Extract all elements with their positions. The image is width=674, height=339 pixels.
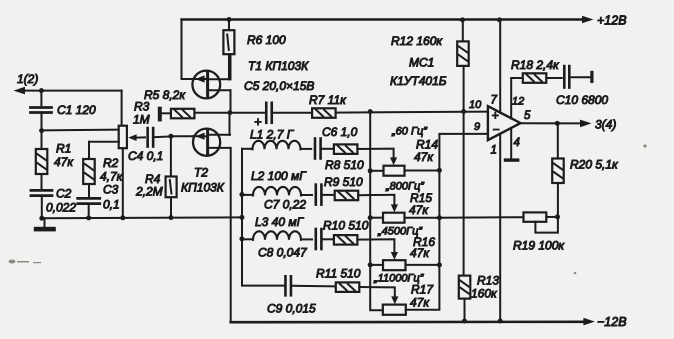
label R15 value [409, 203, 429, 217]
svg-text:R19 100к: R19 100к [513, 239, 565, 253]
capacitor C9 [285, 276, 335, 295]
arrow output 3(4) [580, 120, 592, 128]
label R10 510 [323, 219, 369, 233]
label C5 plus [254, 114, 262, 129]
label C8 0,047 [258, 246, 308, 260]
label R19 100k [513, 239, 565, 253]
label input 1(2) [17, 72, 38, 86]
label 800Hz [385, 181, 425, 193]
label K1UT401B [390, 74, 447, 88]
label R13 value [471, 287, 498, 301]
resistor R5 [171, 109, 195, 119]
svg-text:R2: R2 [103, 156, 119, 170]
wiper arrow input pot [128, 134, 145, 141]
junction rail-R6 [227, 17, 232, 22]
junction output [555, 121, 560, 126]
svg-text:С9 0,015: С9 0,015 [267, 302, 316, 316]
svg-text:„60 Гц”: „60 Гц” [391, 126, 428, 138]
capacitor C8 [316, 229, 334, 249]
wire T2 gate [171, 135, 193, 137]
junction busA-R15 [368, 215, 373, 220]
label R17 [411, 283, 434, 297]
svg-text:R3: R3 [134, 100, 150, 114]
label R3 1M [133, 100, 150, 127]
svg-text:R17: R17 [411, 283, 434, 297]
potentiometer R15 [383, 213, 405, 223]
pin 4 label [514, 137, 520, 149]
junction C2-bottom wire [39, 216, 44, 221]
potentiometer input pot body [119, 126, 127, 149]
svg-text:R5 8,2к: R5 8,2к [144, 88, 186, 102]
wire R14 left [370, 170, 383, 172]
wire pin 12 [511, 78, 523, 119]
ground symbol op-amp [504, 158, 520, 161]
label R7 11k [309, 93, 347, 107]
wire LC left bus [242, 149, 284, 286]
svg-text:С10 6800: С10 6800 [556, 93, 608, 107]
svg-text:−12В: −12В [597, 315, 627, 329]
junction C4-R4 [168, 134, 173, 139]
arrow input [14, 87, 26, 95]
junction busB-R16 [437, 262, 442, 267]
svg-text:L3 40 мГ: L3 40 мГ [255, 215, 305, 229]
svg-text:7: 7 [491, 95, 498, 107]
wire bus B [406, 134, 488, 310]
svg-text:R7 11к: R7 11к [309, 93, 347, 107]
label R1 47k [54, 142, 74, 170]
resistor R20 [552, 123, 564, 216]
wire input [24, 91, 122, 126]
potentiometer R14 [384, 166, 405, 176]
ground symbol left [34, 227, 56, 232]
label R8 510 [325, 158, 364, 172]
wire bus A [370, 112, 383, 311]
label -12V [597, 315, 627, 329]
svg-text:10: 10 [469, 99, 482, 111]
junction pot-bottom wire [120, 215, 125, 220]
svg-text:R1: R1 [56, 142, 71, 156]
svg-text:R8 510: R8 510 [325, 158, 364, 172]
svg-text:С3: С3 [103, 183, 119, 197]
wiper arrow R16 [391, 252, 398, 260]
junction busA top [368, 109, 373, 114]
svg-text:4: 4 [514, 137, 520, 149]
label R12 160k [391, 34, 443, 48]
inductor L1 [242, 141, 311, 150]
wire pin 4 [510, 128, 512, 159]
svg-text:МС1: МС1 [409, 56, 434, 70]
svg-text:−: − [493, 122, 500, 136]
resistor R13 [459, 112, 471, 322]
svg-text:R18 2,4к: R18 2,4к [511, 58, 560, 72]
capacitor C5 [266, 103, 312, 123]
svg-text:47к: 47к [410, 246, 430, 260]
label R13 [477, 274, 499, 288]
wire +12V top rail [182, 20, 584, 80]
wire R14 right [405, 170, 440, 172]
wire T1 drain to R6 [230, 54, 232, 79]
svg-text:С5 20,0×15В: С5 20,0×15В [244, 79, 314, 93]
capacitor C6 [315, 139, 334, 159]
wire T1 gate to rail [182, 78, 193, 80]
terminal stub C10 [590, 71, 593, 83]
label R14 [416, 138, 438, 152]
label 60Hz [391, 126, 428, 138]
svg-text:5: 5 [524, 110, 531, 122]
label MC1 [409, 56, 434, 70]
wire R15 right [405, 217, 440, 219]
label C6 1,0 [322, 125, 358, 139]
svg-text:Т2: Т2 [194, 166, 208, 180]
label R4 2,2M [135, 172, 163, 199]
pin 10 label [469, 99, 482, 111]
svg-text:R11 510: R11 510 [316, 267, 361, 281]
svg-text:R9 510: R9 510 [324, 175, 363, 189]
resistor R6 [223, 20, 234, 80]
label R17 value [410, 296, 430, 310]
pin 12 label [512, 96, 524, 108]
svg-text:L1 2,7 Г: L1 2,7 Г [250, 128, 295, 142]
svg-text:47к: 47к [409, 203, 429, 217]
capacitor C2 [31, 190, 52, 218]
label C5 value [244, 79, 314, 93]
potentiometer R16 [383, 260, 406, 270]
svg-text:С2: С2 [56, 187, 72, 201]
junction rail-R13 [462, 319, 467, 324]
wire bottom-left bus [42, 216, 242, 219]
label R20 5,1k [570, 158, 619, 172]
capacitor C10 [546, 66, 590, 88]
wire R2 top [89, 142, 119, 159]
junction rail-R12 [460, 17, 465, 22]
svg-text:47к: 47к [414, 150, 434, 164]
label 11000Hz [373, 273, 425, 285]
resistor R4 [166, 136, 177, 217]
pin 1 label [491, 145, 497, 157]
label C10 6800 [556, 93, 608, 107]
pin 9 label [474, 121, 480, 133]
junction input-C1 [39, 88, 44, 93]
svg-text:R10 510: R10 510 [323, 219, 369, 233]
op-amp U1 triangle [488, 106, 521, 140]
arrow -12V rail [583, 318, 594, 326]
wire pot bottom [122, 148, 124, 218]
label R14 value [414, 150, 434, 164]
arrow +12V rail [582, 16, 594, 24]
svg-text:+: + [492, 109, 499, 123]
resistor R11 [336, 282, 395, 299]
wiper arrow R17 [391, 296, 398, 304]
resistor R10 [334, 235, 395, 255]
resistor R2 [83, 159, 95, 196]
svg-text:0,022: 0,022 [46, 201, 76, 215]
junction R4-bottom wire [169, 215, 174, 220]
label 3(4) [595, 118, 616, 132]
svg-text:9: 9 [474, 121, 480, 133]
wiper arrow R15 [391, 204, 398, 212]
svg-text:R6 100: R6 100 [247, 33, 286, 47]
svg-text:0,1: 0,1 [103, 198, 120, 212]
wire pin 7 [499, 20, 501, 113]
junction R12-R13 on input line [461, 109, 466, 114]
wire pin 1 [499, 134, 501, 321]
resistor R7 [312, 108, 487, 118]
label R6 100 [247, 33, 286, 47]
label T2 type [181, 181, 225, 195]
label R16 [413, 235, 435, 249]
label R2 4,7k [100, 156, 124, 184]
label C1 120 [57, 103, 96, 117]
junction rail-pin1 [498, 319, 503, 324]
pin 7 label [491, 95, 498, 107]
junction busB-R15 [437, 215, 442, 220]
node A junction [228, 110, 233, 115]
svg-text:+12В: +12В [597, 14, 627, 28]
svg-text:47к: 47к [54, 155, 74, 169]
wire T1 source down [230, 90, 232, 113]
svg-text:КП103К: КП103К [181, 181, 225, 195]
label C4 0,1 [128, 149, 163, 163]
capacitor C1 [31, 91, 52, 131]
junction bus-bottom wire [239, 215, 244, 220]
transistor T1 [192, 71, 231, 99]
wire ground stub [44, 218, 46, 227]
svg-text:160к: 160к [471, 287, 498, 301]
label C9 0,015 [267, 302, 316, 316]
svg-text:1: 1 [491, 145, 497, 157]
wiper arrow R14 [390, 157, 397, 165]
label C7 0,22 [264, 198, 306, 212]
svg-text:Т1 КП103К: Т1 КП103К [248, 59, 309, 73]
pin 5 label [524, 110, 531, 122]
label L3 40mG [255, 215, 305, 229]
label L1 2,7G [250, 128, 295, 142]
label T1 type [248, 59, 309, 73]
junction C1-R1 [39, 128, 44, 133]
svg-text:1М: 1М [133, 113, 150, 127]
label +12V [597, 14, 627, 28]
op-amp minus sign [493, 122, 500, 136]
svg-text:R20 5,1к: R20 5,1к [570, 158, 619, 172]
capacitor C4 [148, 128, 171, 147]
terminal stub R5 [158, 107, 171, 122]
wire R16 left [370, 264, 383, 266]
wire C1 bottom to potentiometer R2a [42, 129, 119, 132]
junction R20-R19 [555, 214, 560, 219]
capacitor C3 [78, 198, 100, 218]
svg-text:К1УТ401Б: К1УТ401Б [390, 74, 447, 88]
potentiometer R17 [383, 305, 406, 315]
svg-text:3(4): 3(4) [595, 118, 616, 132]
svg-text:L2 100 мГ: L2 100 мГ [251, 169, 307, 183]
resistor R18 [523, 73, 547, 83]
resistor R19 [439, 212, 557, 221]
label R15 [410, 191, 432, 205]
svg-text:R13: R13 [477, 274, 499, 288]
label T2 [194, 166, 208, 180]
label C3 value [103, 183, 120, 212]
svg-text:С1 120: С1 120 [57, 103, 96, 117]
capacitor C7 [316, 185, 335, 205]
op-amp plus sign [492, 109, 499, 123]
svg-text:С6 1,0: С6 1,0 [322, 125, 358, 139]
wire T2 drain to node A [229, 113, 231, 135]
speck artifacts [9, 144, 647, 274]
svg-text:С4 0,1: С4 0,1 [128, 149, 163, 163]
wire -12V bottom rail [231, 320, 585, 323]
resistor R1 [36, 131, 48, 189]
svg-text:12: 12 [512, 96, 524, 108]
resistor R12 [457, 20, 469, 112]
wire node A horizontal [194, 112, 264, 114]
junction rail-pin7 [497, 17, 502, 22]
resistor R8 [334, 144, 394, 160]
junction busA-R16 [368, 262, 373, 267]
wire T2 source down [230, 148, 232, 322]
junction bus-L3 [239, 236, 244, 241]
wire R15 left [370, 217, 383, 219]
resistor R9 [335, 191, 395, 208]
junction busB-R14 [437, 168, 442, 173]
wire R16 right [406, 264, 440, 266]
junction C3-bottom wire [86, 215, 91, 220]
label R11 510 [316, 267, 361, 281]
label R5 8,2k [144, 88, 186, 102]
label R16 value [410, 246, 430, 260]
label R9 510 [324, 175, 363, 189]
label C2 value [46, 187, 76, 215]
svg-text:1(2): 1(2) [17, 72, 38, 86]
wire R19 wiper loop [535, 217, 558, 233]
svg-text:R12 160к: R12 160к [391, 34, 443, 48]
junction bus-L2 [239, 192, 244, 197]
label R18 2,4k [511, 58, 560, 72]
wire output [521, 122, 582, 124]
label 4500Hz [377, 226, 423, 238]
svg-text:4,7к: 4,7к [100, 170, 124, 184]
svg-text:С8 0,047: С8 0,047 [258, 246, 308, 260]
svg-text:С7 0,22: С7 0,22 [264, 198, 306, 212]
svg-text:2,2М: 2,2М [135, 185, 163, 199]
inductor L2 [242, 187, 312, 196]
inductor L3 [242, 231, 312, 240]
label L2 100mG [251, 169, 307, 183]
junction busA-R14 [368, 168, 373, 173]
transistor T2 [193, 129, 231, 156]
svg-text:47к: 47к [410, 296, 430, 310]
